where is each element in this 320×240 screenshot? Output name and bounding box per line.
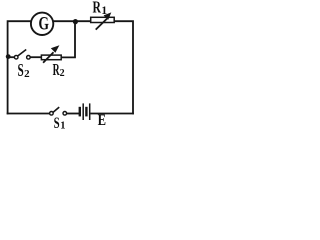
resistor R1 (variable) box [91, 17, 115, 22]
battery E plate 1 (short thick) [79, 107, 81, 117]
switch S1 contact circle left [50, 112, 54, 116]
wire middle branch left (left wire to S2) [8, 56, 15, 58]
switch S2 lever [18, 50, 27, 57]
wire bottom mid segment (switch S1 to battery) [67, 113, 79, 115]
wire bottom-left segment [8, 113, 50, 115]
wire bottom-right segment (battery to right corner) [91, 113, 133, 115]
switch S2 contact circle right [27, 56, 31, 60]
wire middle branch (S2 to R2) [30, 56, 41, 58]
svg-text:1: 1 [60, 120, 65, 131]
battery E plate 2 (long thin) [82, 103, 84, 120]
svg-text:R: R [93, 0, 102, 16]
svg-text:S: S [18, 60, 24, 80]
node junction dot left (S2 branch from left wire) [6, 54, 11, 59]
svg-text:E: E [98, 112, 106, 129]
battery E plate 4 (long thin) [89, 103, 91, 120]
svg-text:2: 2 [60, 68, 65, 79]
switch S2 contact circle left [14, 55, 18, 59]
switch S1 lever [53, 107, 59, 112]
resistor R2 arrow [43, 45, 59, 63]
svg-text:2: 2 [24, 68, 30, 80]
svg-text:1: 1 [101, 5, 107, 17]
svg-text:S: S [54, 115, 60, 132]
wire middle branch right + vertical up to top junction [62, 21, 76, 57]
resistor R2 (rheostat) box [41, 55, 61, 60]
switch S1 contact circle right [63, 112, 67, 116]
node junction dot top (branch to R2 joins top wire) [73, 19, 78, 24]
galvanometer G circle [31, 13, 53, 35]
svg-text:G: G [39, 13, 50, 34]
resistor R1 arrow [96, 12, 112, 29]
battery E plate 3 (short thick) [85, 107, 87, 117]
wire outer loop: left, top, right sides [8, 21, 133, 113]
